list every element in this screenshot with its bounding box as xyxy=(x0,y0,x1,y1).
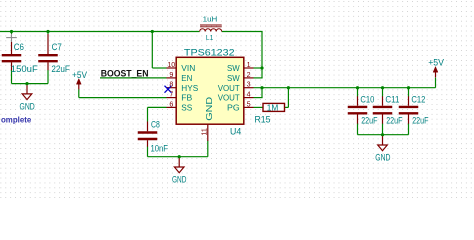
svg-text:3: 3 xyxy=(247,81,251,89)
svg-text:FB: FB xyxy=(181,93,192,103)
svg-text:C8: C8 xyxy=(151,120,160,131)
svg-text:SW: SW xyxy=(227,73,241,83)
svg-text:BOOST_EN: BOOST_EN xyxy=(101,68,149,79)
svg-text:6: 6 xyxy=(169,100,173,108)
svg-text:C12: C12 xyxy=(411,94,425,105)
svg-text:GND: GND xyxy=(20,102,35,113)
svg-text:SW: SW xyxy=(227,63,241,73)
svg-text:SS: SS xyxy=(181,103,192,113)
svg-text:U4: U4 xyxy=(230,126,242,137)
svg-text:EN: EN xyxy=(181,73,192,83)
svg-text:150uF: 150uF xyxy=(11,64,38,75)
svg-text:C6: C6 xyxy=(14,42,24,53)
svg-text:C10: C10 xyxy=(360,94,374,105)
svg-text:R15: R15 xyxy=(255,115,271,126)
svg-text:22uF: 22uF xyxy=(386,116,402,127)
svg-text:7: 7 xyxy=(169,91,173,99)
svg-text:1uH: 1uH xyxy=(203,15,218,24)
svg-text:VOUT: VOUT xyxy=(218,93,241,103)
svg-text:C11: C11 xyxy=(385,94,399,105)
svg-text:+5V: +5V xyxy=(428,57,444,68)
svg-text:omplete: omplete xyxy=(1,114,32,124)
svg-text:HYS: HYS xyxy=(181,83,198,93)
svg-text:L1: L1 xyxy=(206,33,213,42)
svg-text:10: 10 xyxy=(167,61,175,69)
svg-text:VOUT: VOUT xyxy=(218,83,241,93)
svg-text:GND: GND xyxy=(172,174,186,185)
svg-text:22uF: 22uF xyxy=(412,116,428,127)
svg-text:4: 4 xyxy=(247,91,251,99)
svg-text:22uF: 22uF xyxy=(361,116,377,127)
svg-text:GND: GND xyxy=(204,97,214,121)
svg-text:11: 11 xyxy=(201,128,209,135)
svg-text:C7: C7 xyxy=(52,42,62,53)
svg-text:8: 8 xyxy=(169,81,173,89)
svg-text:VIN: VIN xyxy=(181,63,195,73)
svg-text:1M: 1M xyxy=(267,103,279,112)
svg-text:10nF: 10nF xyxy=(151,144,169,155)
svg-text:5: 5 xyxy=(247,100,251,108)
svg-text:GND: GND xyxy=(375,153,390,164)
svg-text:TPS61232: TPS61232 xyxy=(184,48,235,59)
svg-text:PG: PG xyxy=(227,103,240,113)
svg-text:2: 2 xyxy=(247,71,251,79)
svg-text:9: 9 xyxy=(169,71,173,79)
svg-text:+5V: +5V xyxy=(72,70,88,81)
svg-text:22uF: 22uF xyxy=(51,64,70,75)
svg-text:1: 1 xyxy=(247,61,251,69)
